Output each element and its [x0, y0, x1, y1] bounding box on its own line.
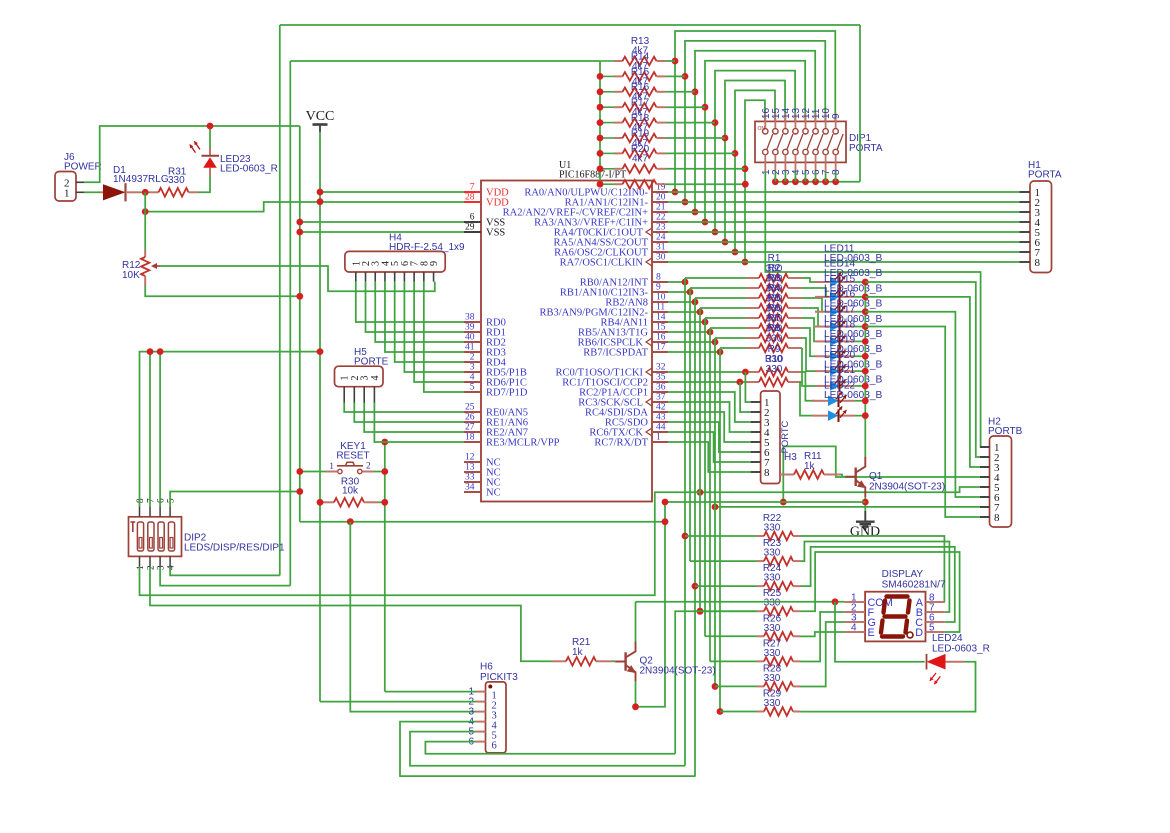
connector H4 HDR-F-2.54_1x9 body — [345, 251, 445, 272]
pin U1-13 NC (left) — [464, 471, 481, 473]
svg-text:PORTC: PORTC — [779, 420, 790, 453]
svg-text:2: 2 — [470, 353, 475, 363]
wire H4 pin8 to RD7 — [424, 282, 464, 392]
svg-text:25: 25 — [465, 403, 475, 413]
wire H4 pin6 to RD5 — [404, 282, 464, 372]
svg-text:D: D — [915, 627, 923, 639]
node R13-rail junction — [597, 165, 604, 172]
node LED rail top junction — [862, 279, 869, 286]
svg-text:RB7/ICSPDAT: RB7/ICSPDAT — [583, 348, 648, 359]
wire DIP1 bottom bus — [775, 181, 860, 183]
pin U1-19 RA0/AN0/ULPWU/C12IN0- (right) — [652, 191, 668, 193]
svg-text:DISPLAY: DISPLAY — [882, 569, 924, 580]
wire R3 to LED anode — [802, 298, 822, 312]
wire DIP2 pin3 loop to sw3 rail — [160, 567, 290, 586]
svg-text:LEDS/DISP/RES/DIP1: LEDS/DISP/RES/DIP1 — [184, 543, 285, 554]
node R25 row junction RB3 — [697, 608, 704, 615]
wire RC4 riser to H3 pin5 — [668, 412, 751, 442]
display DISPLAY SM460281N/7 body — [865, 592, 925, 642]
pin U1-26 RE1/AN6 (left) — [464, 421, 481, 423]
wire R17 to vertical — [666, 122, 715, 124]
resistor R13 4k7 — [600, 60, 614, 62]
node LED cathode rail junction — [862, 353, 869, 360]
svg-text:LED24: LED24 — [932, 633, 963, 644]
svg-text:13: 13 — [465, 463, 475, 473]
svg-text:NC: NC — [486, 488, 501, 499]
pin DIP2-6 (top) — [159, 506, 161, 516]
svg-text:330: 330 — [766, 364, 783, 375]
pin R12 wiper arrow — [153, 265, 161, 267]
node RA5 resistor junction — [722, 135, 729, 142]
svg-text:8: 8 — [1035, 257, 1041, 269]
svg-text:22: 22 — [656, 213, 666, 223]
pin H3-2 — [751, 411, 761, 413]
resistor R21 1k — [540, 660, 552, 662]
wire GND row from rail — [300, 521, 665, 523]
switch DIP2 slider 1 — [137, 522, 143, 551]
node RB4 junction — [702, 319, 709, 326]
node LED cathode rail junction — [862, 383, 869, 390]
svg-text:7: 7 — [470, 183, 475, 193]
pin H3-5 — [751, 441, 761, 443]
wire RA0 net vertical+loop to DIP1 — [675, 31, 835, 192]
resistor R14 4k7 — [600, 75, 614, 77]
ground GND symbol — [864, 511, 866, 521]
pin DISPLAY-7 B — [926, 611, 945, 613]
pin U1-12 NC (left) — [464, 461, 481, 463]
pin H5-3 — [363, 387, 365, 403]
pin DIP1-1 (bottom) — [763, 149, 768, 154]
svg-text:41: 41 — [465, 343, 475, 353]
wire RA7 row to H1 pin8 — [668, 261, 1020, 263]
pin U1-28 VDD (left) — [464, 201, 481, 203]
wire J6 pin1 to D1 — [84, 191, 100, 193]
pin H3-8 — [751, 471, 761, 473]
pin U1-44 RC6/TX/CK (right) — [652, 431, 668, 433]
wire RC3 riser to H3 pin4 — [668, 402, 751, 432]
pin H2-4 — [980, 476, 990, 478]
svg-text:H6: H6 — [480, 662, 493, 673]
pin DISPLAY-3 G — [845, 621, 866, 623]
wire J6 pin2 to GND rail — [84, 126, 300, 182]
svg-text:PICKIT3: PICKIT3 — [480, 672, 518, 683]
LED LED24 LED-0603_R — [927, 654, 946, 670]
wire R14 to vertical — [666, 75, 685, 77]
wire R22 to display A — [801, 536, 945, 602]
resistor R8 330 — [719, 348, 721, 352]
wire KEY1 pin1 to GND rail — [300, 471, 326, 473]
wire H4 pin5 to RD4 — [395, 282, 464, 362]
resistor R26 330 — [705, 635, 757, 637]
pin U1-25 RE0/AN5 (left) — [464, 411, 481, 413]
wire RB4 row — [668, 321, 705, 323]
pin U1-23 RA4/T0CKI/C1OUT (right) — [652, 231, 668, 233]
pin DIP2-5 (top) — [169, 506, 171, 516]
wire Q1 emitter to GND — [864, 497, 866, 511]
pin H5-4 — [373, 387, 375, 403]
node DIP1 bus junction — [782, 178, 789, 185]
pin U1-15 RB5/AN13/T1G (right) — [652, 331, 668, 333]
resistor R19 4k7 — [600, 152, 614, 154]
pin H6-3 — [476, 711, 486, 713]
svg-text:4: 4 — [851, 623, 857, 634]
node RA0 pin junction — [672, 189, 679, 196]
wire RB7 row — [668, 351, 720, 353]
svg-text:330: 330 — [764, 673, 781, 684]
pin U1-34 NC (left) — [464, 491, 481, 493]
svg-text:28: 28 — [465, 193, 475, 203]
wire RB6 branch to H2 pin7 — [715, 506, 990, 508]
wire RC6 riser to H3 pin7 — [668, 432, 751, 462]
node KEY1 GND junction — [296, 468, 303, 475]
pin DIP1-8 (bottom) — [833, 149, 838, 154]
node RB6 junction — [712, 339, 719, 346]
wire RB2 vertical to R24 — [694, 302, 696, 776]
node R22 feed junction — [682, 533, 689, 540]
svg-text:2N3904(SOT-23): 2N3904(SOT-23) — [869, 481, 945, 492]
wire RC2 riser to H3 pin3 — [668, 392, 751, 422]
pin U1-5 RD7/P1D (left) — [464, 391, 481, 393]
pin DIP1-10 (top) — [825, 113, 827, 129]
switch DIP2 slider 4 — [168, 522, 174, 551]
node GND row junction at x350 — [347, 518, 354, 525]
wire rail row297 to H2 pin3 — [865, 297, 989, 467]
pin H1-6 — [1020, 241, 1031, 243]
wire DIP2 pins 8-7-6 to VCC — [140, 352, 321, 507]
svg-text:6: 6 — [492, 741, 497, 752]
node R13-rail junction — [597, 135, 604, 142]
pin U1-16 RB6/ICSPCLK (right) — [652, 341, 668, 343]
wire VCC to U1 VDD pin7 — [320, 191, 464, 193]
resistor array 9th element — [600, 183, 614, 185]
node LED cathode rail junction — [862, 293, 869, 300]
svg-text:37: 37 — [656, 393, 666, 403]
wire H6 pin5 loop — [410, 732, 685, 766]
pin H1-7 — [1020, 251, 1031, 253]
svg-text:36: 36 — [656, 383, 666, 393]
svg-text:PORTA: PORTA — [849, 143, 883, 154]
svg-text:9: 9 — [429, 261, 440, 266]
svg-text:RD7/P1D: RD7/P1D — [486, 388, 528, 399]
node RB6 branch junction — [712, 504, 719, 511]
wire RB6 row — [668, 341, 715, 343]
wire R8 to LED anode — [802, 348, 815, 386]
resistor R10 330 — [746, 381, 759, 383]
pin H4-3 — [374, 272, 376, 282]
svg-text:RC7/RX/DT: RC7/RX/DT — [594, 438, 648, 449]
pin U1-3 RD5/P1B (left) — [464, 371, 481, 373]
LED D1 LED-0603_B — [815, 281, 830, 283]
svg-text:RA7/OSC1/CLKIN: RA7/OSC1/CLKIN — [560, 258, 644, 269]
svg-text:HDR-F-2.54_1x9: HDR-F-2.54_1x9 — [389, 242, 465, 253]
resistor R16 4k7 — [600, 106, 614, 108]
node VDD28 junction on VCC rail — [317, 198, 324, 205]
node RA6 pin junction — [732, 249, 739, 256]
node DIP2 VCC junction — [317, 348, 324, 355]
node KEY1 MCLR junction — [381, 468, 388, 475]
wire COM to LED24 cathode — [835, 602, 925, 662]
wire R13 rail to sw3 rail y=61 — [290, 60, 600, 62]
wire Q2 collector to display COM — [636, 601, 845, 603]
switch DIP1 lever 8 — [837, 134, 843, 150]
node R13-rail junction — [597, 73, 604, 80]
pin DIP1-9 (top) — [835, 113, 837, 129]
svg-text:3: 3 — [470, 363, 475, 373]
wire R1 to LED anode — [802, 278, 815, 282]
pin U1-18 RE3/MCLR/VPP (left) — [464, 441, 481, 443]
wire rail row327 to H2 pin8 — [865, 327, 989, 517]
svg-text:10k: 10k — [342, 486, 359, 497]
wire display F to R27 — [801, 612, 845, 662]
svg-text:LED-0603_R: LED-0603_R — [220, 164, 278, 175]
svg-text:35: 35 — [656, 373, 666, 383]
pin U1-27 RE2/AN7 (left) — [464, 431, 481, 433]
wire display G to R28 — [801, 622, 845, 687]
resistor R7 330 — [714, 338, 716, 342]
node RC1 junction H3 riser — [736, 379, 743, 386]
svg-text:8: 8 — [831, 169, 842, 175]
wire H6 pin1 to MCLR — [385, 691, 476, 693]
wire display E to R26 — [801, 632, 845, 636]
wire KEY1 pin2 to MCLR — [374, 471, 385, 473]
svg-text:42: 42 — [656, 403, 666, 413]
svg-text:2: 2 — [366, 462, 371, 472]
wire LED23 anode up — [209, 126, 211, 148]
node RA4 pin junction — [712, 229, 719, 236]
node RB0 junction — [682, 279, 689, 286]
node DIP1 bus junction — [792, 178, 799, 185]
pin U1-21 RA2/AN2/VREF-/CVREF/C2IN+ (right) — [652, 211, 668, 213]
LED D5 LED-0603_B — [815, 340, 830, 342]
wire R13 to vertical — [666, 60, 675, 62]
wire R5 to LED anode — [802, 318, 815, 341]
resistor R9 330 — [746, 371, 759, 373]
pin DIP1-14 (top) — [784, 113, 786, 129]
svg-text:40: 40 — [465, 333, 475, 343]
pin H6-5 — [476, 731, 486, 733]
wire net R13-rail vertical x=290.3 (to DIP2 sw3) — [289, 61, 291, 586]
pin H4-5 — [394, 272, 396, 282]
pin U1-38 RD0 (left) — [464, 321, 481, 323]
wire RC5 riser to H3 pin6 — [668, 422, 751, 452]
LED D7 LED-0603_B — [815, 370, 830, 372]
svg-text:LED-0603_B: LED-0603_B — [824, 390, 883, 401]
pin H2-2 — [980, 456, 990, 458]
pin DIP1-4 (bottom) — [793, 149, 798, 154]
svg-text:20: 20 — [656, 193, 666, 203]
wire RB1 vertical to R23 — [689, 292, 691, 561]
transistor Q2 2N3904(SOT-23) — [624, 652, 626, 671]
node RB3 junction — [697, 309, 704, 316]
pin H4-8 — [423, 272, 425, 282]
svg-text:330: 330 — [764, 573, 781, 584]
node R28 feed junction — [712, 683, 719, 690]
pin U1-36 RC2/P1A/CCP1 (right) — [652, 391, 668, 393]
pin H2-5 — [980, 486, 990, 488]
svg-text:4k7: 4k7 — [632, 153, 649, 164]
svg-text:21: 21 — [656, 203, 666, 213]
node RC0 junction H3 riser — [742, 369, 749, 376]
wire R16 to vertical — [666, 106, 705, 108]
wire RB2 row — [668, 301, 695, 303]
connector J6 POWER — [55, 172, 76, 202]
pin DIP2-8 (top) — [139, 506, 141, 516]
wire DIP2 pin1 loop to RB3 net — [140, 492, 701, 595]
node DIP1 bus junction — [832, 178, 839, 185]
node VSS29 junction — [296, 229, 303, 236]
wire H5 pin1 to RE0 — [344, 403, 464, 413]
node R13-rail junction — [597, 181, 604, 188]
svg-text:GND: GND — [850, 525, 880, 540]
wire RB0 row — [668, 281, 685, 283]
wire H4 pin2 to RD1 — [366, 282, 464, 332]
node DIP1 bus junction — [822, 178, 829, 185]
svg-text:17: 17 — [656, 343, 666, 353]
pin DIP2-7 (top) — [149, 506, 151, 516]
pin DIP2-4 (bottom) — [169, 556, 171, 566]
pin H4-9 — [433, 272, 435, 282]
pin DISPLAY-2 F — [845, 611, 866, 613]
pin U1-42 RC4/SDI/SDA (right) — [652, 411, 668, 413]
wire DIP2 pin4 loop to DIP1 rail — [170, 567, 280, 576]
pin J6-2 stub — [76, 181, 84, 183]
node LED23 anode junction — [207, 123, 214, 130]
svg-text:330: 330 — [764, 623, 781, 634]
wire RA4 net vertical+loop to DIP1 — [715, 71, 795, 232]
resistor R17 4k7 — [600, 122, 614, 124]
wire RB3 row — [668, 311, 700, 313]
svg-text:30: 30 — [656, 253, 666, 263]
pin DIP1-11 (top) — [815, 113, 817, 129]
wire R9 to LED anode — [802, 372, 815, 401]
wire RA2 net vertical+loop to DIP1 — [695, 51, 815, 212]
wire RB1 row — [668, 291, 690, 293]
wire RB6 vertical to R28 — [714, 342, 716, 687]
pin H2-7 — [980, 506, 990, 508]
svg-text:34: 34 — [465, 483, 475, 493]
pin H1-5 — [1020, 231, 1031, 233]
wire R25 row left segment — [700, 610, 757, 612]
svg-text:15: 15 — [656, 323, 666, 333]
wire R21 to Q2 base — [612, 660, 615, 662]
node GND tap right of H3 — [780, 499, 787, 506]
svg-text:24: 24 — [656, 233, 666, 243]
pin U1-17 RB7/ICSPDAT (right) — [652, 351, 668, 353]
node R13-rail junction — [597, 119, 604, 126]
node RB5 junction — [707, 329, 714, 336]
wire H4 pin4 to RD3 — [385, 282, 464, 352]
svg-text:43: 43 — [656, 413, 666, 423]
wire net DIP1-common vertical x=279.8 (top loop to DIP2 sw4) — [279, 25, 281, 575]
wire R6 to LED anode — [802, 328, 815, 356]
display decimal point — [907, 632, 913, 638]
wire RA1 row to H1 pin2 — [668, 201, 1020, 203]
pin H2-8 — [980, 516, 990, 518]
pin DISPLAY-4 E — [845, 631, 866, 633]
wire DIP1 bottom pin drop — [805, 172, 807, 182]
switch DIP1 lever 7 — [827, 134, 833, 150]
resistor R23 330 — [690, 560, 757, 562]
pin U1-31 RA6/OSC2/CLKOUT (right) — [652, 251, 668, 253]
wire DIP1 bus right riser to top — [859, 25, 861, 182]
svg-text:9: 9 — [656, 283, 661, 293]
node RA3 resistor junction — [702, 104, 709, 111]
switch DIP1 lever 5 — [807, 134, 813, 150]
pin H1-8 — [1020, 261, 1031, 263]
wire H6 pin2 to VCC rail — [320, 701, 476, 703]
wire RA6 row to H1 pin7 — [668, 251, 1020, 253]
display seven-segment glyph — [881, 597, 910, 637]
svg-text:39: 39 — [465, 323, 475, 333]
pin H2-6 — [980, 496, 990, 498]
node LED cathode rail junction — [862, 412, 869, 419]
node RA3 pin junction — [702, 219, 709, 226]
node VDD28 tap on R12 wire — [142, 208, 149, 215]
pin H3-6 — [751, 451, 761, 453]
node R25 feed junction — [697, 608, 704, 615]
wire RA1 net vertical+loop to DIP1 — [685, 41, 825, 202]
wire RB5 vertical to R27 — [709, 332, 711, 662]
pin H6-1 — [476, 691, 486, 693]
wire DIP1 pin1 to H2 pin1 — [765, 172, 989, 448]
switch DIP2 slider 2 — [148, 522, 154, 551]
node RB3 branch junction — [697, 489, 704, 496]
wire R4 to LED anode — [802, 308, 818, 327]
svg-text:330: 330 — [764, 648, 781, 659]
node R12-GND junction — [296, 293, 303, 300]
wire GND rail vertical x=300 (from J6 pin2) — [299, 126, 301, 522]
node DIP2 pin5 GND junction — [296, 488, 303, 495]
node DIP2 pin6 junction — [157, 348, 164, 355]
wire 9th resistor to vertical — [666, 183, 745, 185]
wire RA4 row to H1 pin5 — [668, 231, 1020, 233]
svg-text:2N3904(SOT-23): 2N3904(SOT-23) — [640, 666, 716, 677]
connector H6 PICKIT3 body — [486, 682, 507, 753]
pin H4-1 — [355, 272, 357, 282]
wire R11 to Q1 base — [840, 475, 845, 477]
node GND vertical junction y502 — [662, 499, 669, 506]
svg-text:8: 8 — [764, 467, 770, 479]
node GND vertical junction y521 — [662, 518, 669, 525]
pin U1-35 RC1/T1OSCI/CCP2 (right) — [652, 381, 668, 383]
pin H3-3 — [751, 421, 761, 423]
wire H4 pin7 to RD6 — [414, 282, 464, 382]
pin DISPLAY-8 A — [926, 601, 945, 603]
LED D8 LED-0603_B — [815, 385, 830, 387]
node Q1 emitter junction — [862, 499, 869, 506]
pin H6-4 — [476, 721, 486, 723]
wire RC1 row to R10 — [668, 381, 746, 383]
diode D1 1N4937RLG — [100, 191, 103, 193]
resistor R18 4k7 — [600, 137, 614, 139]
pin U1-30 RA7/OSC1/CLKIN (right) — [652, 261, 668, 263]
wire LED24 anode loop to R29 — [801, 662, 976, 712]
resistor R4 330 — [699, 308, 701, 312]
resistor R24 330 — [695, 585, 757, 587]
wire top horizontal y=25 (DIP1 bus to left rail) — [280, 24, 860, 26]
resistor R15 4k7 — [600, 91, 614, 93]
switch DIP1 lever 6 — [817, 134, 823, 150]
switch DIP1 lever 3 — [787, 134, 793, 150]
node Q2 emitter junction — [632, 703, 639, 710]
pin H6-2 — [476, 701, 486, 703]
svg-text:330: 330 — [764, 698, 781, 709]
svg-text:16: 16 — [656, 333, 666, 343]
wire R20 to vertical — [666, 168, 745, 170]
node VCC-VDD7 — [317, 189, 324, 196]
svg-text:1: 1 — [656, 433, 661, 443]
node 9th resistor junction — [742, 181, 749, 188]
